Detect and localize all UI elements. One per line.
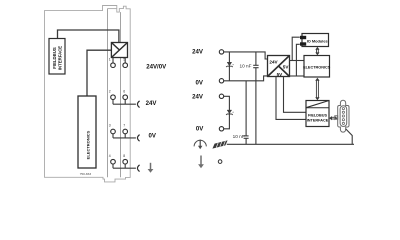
spring contact pair 4 bbox=[137, 165, 139, 172]
functional earth symbol bbox=[194, 140, 206, 146]
wire 0V stub to electronics bbox=[290, 75, 305, 77]
terminal 0V field bbox=[219, 127, 223, 131]
capacitor 10nF earth bbox=[245, 81, 247, 136]
wire 5V fieldbus supply outer bbox=[276, 77, 306, 120]
suppressor diode field bbox=[227, 109, 232, 111]
svg-text:INTERFACE: INTERFACE bbox=[58, 46, 63, 70]
terminal 0V system bbox=[219, 79, 223, 83]
wire 24V rail bbox=[224, 52, 268, 59]
svg-text:IO Modules: IO Modules bbox=[307, 38, 328, 43]
contact pair 2 bbox=[112, 100, 114, 105]
suppressor diode system bbox=[228, 52, 230, 81]
electronics box (module) bbox=[78, 96, 96, 168]
terminal 24V system bbox=[219, 50, 223, 54]
spring contact pair 2 bbox=[137, 101, 139, 108]
svg-text:7: 7 bbox=[123, 124, 125, 128]
module compartment wall right bbox=[120, 12, 122, 177]
svg-text:3: 3 bbox=[109, 124, 111, 128]
svg-text:1: 1 bbox=[109, 57, 111, 61]
svg-text:0V: 0V bbox=[149, 132, 157, 139]
capacitor 10nF system bbox=[255, 52, 257, 65]
d-sub pins bbox=[342, 108, 344, 125]
svg-text:8: 8 bbox=[123, 154, 125, 158]
contact pair 1 terminals bbox=[111, 63, 116, 68]
svg-text:24V: 24V bbox=[192, 48, 204, 55]
wire 5V fieldbus supply inner bbox=[284, 77, 307, 113]
svg-text:5V: 5V bbox=[283, 65, 290, 70]
arrow fieldbus-connector bbox=[331, 116, 336, 118]
spring contact pair 3 bbox=[137, 135, 139, 142]
io modules box bbox=[302, 34, 329, 47]
legend earth arrow bbox=[200, 156, 202, 165]
wire electronics to converter bbox=[87, 50, 111, 96]
svg-text:5V: 5V bbox=[277, 72, 284, 77]
io modules pin upper bbox=[300, 36, 306, 39]
wire 0V riser to io pin2 bbox=[296, 44, 299, 76]
module profile inner line bbox=[107, 8, 116, 10]
legend terminal circle bbox=[218, 160, 222, 164]
svg-text:24V/0V: 24V/0V bbox=[146, 63, 167, 70]
fieldbus interface box bbox=[306, 101, 329, 127]
earth arrow module bbox=[150, 163, 152, 170]
svg-text:FIELDBUS: FIELDBUS bbox=[52, 47, 57, 69]
svg-text:4: 4 bbox=[109, 154, 111, 158]
svg-text:10 nF: 10 nF bbox=[233, 134, 245, 139]
svg-text:FIELDBUS: FIELDBUS bbox=[308, 114, 327, 118]
wire field 24V to suppressor bbox=[224, 96, 230, 129]
wire 0V rail bbox=[224, 76, 268, 81]
wire fieldbus-interface to converter bbox=[58, 30, 119, 43]
terminal 24V field bbox=[219, 94, 223, 98]
svg-text:INTERFACE: INTERFACE bbox=[307, 119, 329, 123]
svg-text:750-833: 750-833 bbox=[80, 172, 92, 176]
dc-dc converter (module) bbox=[111, 43, 127, 58]
electronics box bbox=[304, 56, 330, 78]
bus arrow io-electronics bbox=[316, 49, 318, 54]
module compartment wall left bbox=[107, 9, 109, 178]
svg-text:0V: 0V bbox=[196, 126, 204, 133]
svg-text:5: 5 bbox=[123, 57, 125, 61]
earth rail bbox=[227, 143, 354, 145]
svg-text:ELECTRONICS: ELECTRONICS bbox=[86, 130, 91, 159]
wire 5V to electronics bbox=[290, 60, 305, 62]
io modules pin lower bbox=[300, 42, 306, 45]
svg-text:ELECTRONICS: ELECTRONICS bbox=[303, 65, 331, 69]
svg-text:6: 6 bbox=[123, 89, 125, 93]
wire connector shield to earth bbox=[346, 129, 353, 144]
wire 5V riser to io pin1 bbox=[292, 37, 300, 60]
contact pair 4 bbox=[112, 164, 114, 168]
svg-text:24V: 24V bbox=[192, 93, 204, 100]
svg-text:2: 2 bbox=[109, 89, 111, 93]
module outline 750 coupler side profile bbox=[45, 6, 131, 182]
svg-text:24V: 24V bbox=[269, 60, 278, 65]
fieldbus interface box (module) bbox=[49, 39, 65, 75]
dc-dc converter 24V/5V bbox=[268, 56, 290, 77]
svg-text:0V: 0V bbox=[196, 80, 204, 87]
chassis ground symbol bbox=[212, 140, 227, 148]
svg-text:24V: 24V bbox=[146, 100, 158, 107]
d-sub connector bbox=[335, 100, 349, 132]
contact pair 3 bbox=[112, 134, 114, 138]
svg-text:10 nF: 10 nF bbox=[240, 63, 252, 68]
contact pair 1 stems bbox=[112, 58, 114, 64]
bus arrow electronics-fieldbus bbox=[315, 80, 317, 98]
